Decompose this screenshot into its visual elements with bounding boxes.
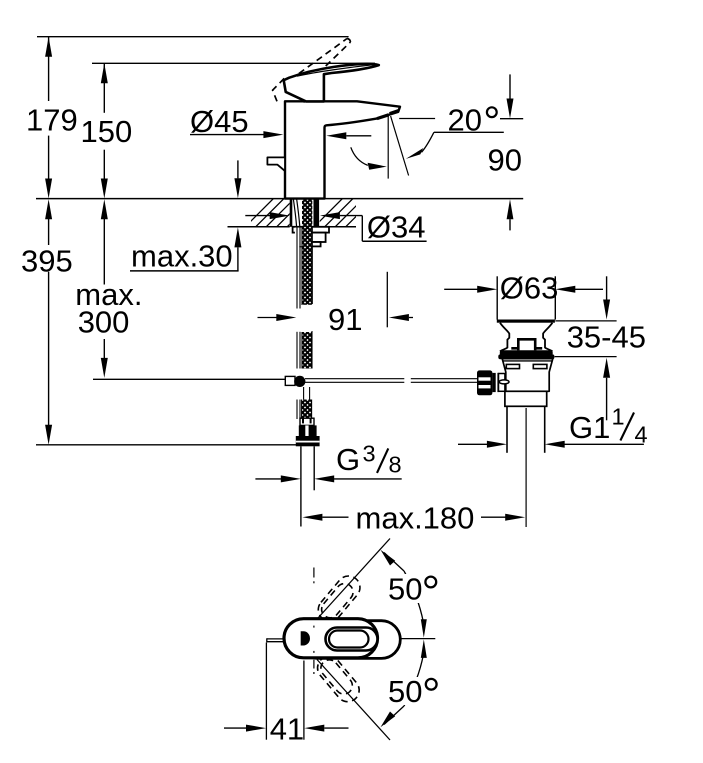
svg-text:max.30: max.30 [131,238,233,273]
svg-text:90: 90 [488,143,522,178]
svg-text:max.180: max.180 [356,501,475,536]
svg-text:G: G [336,442,360,477]
svg-text:Ø34: Ø34 [367,209,426,244]
svg-text:Ø45: Ø45 [190,104,249,139]
svg-text:179: 179 [26,102,78,137]
svg-text:3: 3 [363,441,376,467]
svg-text:150: 150 [81,114,133,149]
svg-text:91: 91 [328,302,362,337]
svg-text:300: 300 [78,304,130,339]
svg-text:G1: G1 [569,410,610,445]
svg-text:395: 395 [21,244,73,279]
svg-text:1: 1 [612,404,625,430]
svg-text:50: 50 [388,572,422,607]
svg-text:41: 41 [270,711,304,746]
svg-text:50: 50 [388,674,422,709]
svg-text:8: 8 [389,452,402,478]
svg-text:35-45: 35-45 [567,319,646,354]
svg-text:4: 4 [635,422,648,448]
svg-text:Ø63: Ø63 [500,271,559,306]
